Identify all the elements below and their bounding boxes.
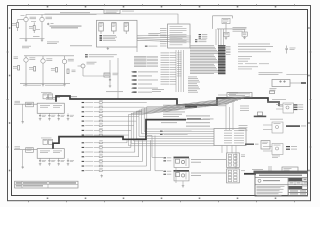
net tag left U10 (163, 171, 171, 172)
wire branch vertical (117, 58, 119, 99)
transistor Q3 (24, 58, 28, 62)
ground Q4 rail (42, 83, 45, 86)
comparator U8 box (272, 144, 283, 155)
interface box internal text (224, 130, 244, 143)
company name text (263, 180, 280, 181)
wires into U8 (263, 147, 272, 152)
wire bus -12V to U3 (137, 39, 191, 40)
label power note (148, 33, 160, 35)
transformer T2 box (37, 149, 64, 159)
net tag input row 1 (199, 34, 208, 35)
net tag row bat1 (85, 54, 117, 55)
notes list text block (238, 44, 273, 53)
label above U6 (272, 98, 286, 101)
transistor Q1 (24, 17, 28, 21)
power bus lower (53, 120, 186, 149)
approvals row 2 (288, 190, 307, 193)
caption text figure note B (47, 42, 59, 45)
label AC input 2 (15, 146, 21, 148)
wires into connector J1 (216, 29, 224, 45)
wire C12 up (244, 29, 246, 32)
wire Q3 up (25, 56, 27, 58)
wire to label box (218, 94, 227, 96)
capacitor C3 (109, 79, 111, 81)
caution label box (104, 10, 134, 14)
drawing number dark cell (288, 178, 302, 181)
title notes text (257, 186, 285, 196)
op-amp U10 box (174, 172, 189, 181)
net tag -12V row (100, 38, 116, 39)
signal text right of U10 row2 (191, 174, 201, 177)
wire regulator input (213, 15, 233, 17)
wire pair down (269, 166, 271, 172)
net row extra (161, 121, 177, 124)
capacitor C1 (47, 23, 49, 25)
fuse F2 (48, 94, 52, 99)
border zone tick marks top and bottom (29, 4, 295, 202)
net tag J1 header row 2 (195, 41, 206, 42)
wire VR3 output (125, 31, 127, 34)
wire Q6 down (64, 64, 66, 84)
regulator U5 (222, 18, 230, 23)
note text spare transistors (50, 26, 82, 29)
resistor R1 (17, 20, 19, 32)
notes table divider (15, 181, 78, 188)
wire VR1 output (100, 31, 102, 34)
title block right column divider (287, 185, 289, 196)
approvals row 3 (288, 193, 307, 196)
cells row mid text (290, 182, 308, 183)
transistor Q5 (224, 32, 229, 36)
notes table text (16, 182, 76, 186)
wire R1 to Q1 base (18, 19, 24, 21)
T2 internal text (40, 151, 62, 153)
resistor R4 (29, 67, 36, 72)
caption mid center (106, 90, 123, 93)
ground lower rows (100, 175, 103, 178)
zone numbers top and bottom (47, 6, 277, 199)
shield box U1 region (97, 20, 138, 47)
resistor R6 (67, 69, 76, 74)
wire Q6 up (64, 56, 66, 59)
wire Q4 down (42, 63, 44, 83)
wire above title block (252, 169, 263, 171)
ground below Q2 (41, 39, 44, 42)
label mid cluster (31, 21, 40, 30)
fuse F3 (43, 140, 47, 145)
label Q6 (68, 59, 74, 61)
transistor Q2 (40, 17, 44, 21)
label box power dist (227, 93, 252, 98)
title divider 1 (255, 177, 308, 179)
net tag row sheet ref (145, 46, 158, 47)
regulator VR1 (99, 23, 104, 31)
net tag +12V row (100, 37, 118, 38)
net tag left U9 (163, 157, 171, 158)
comparator U7 box (272, 122, 283, 133)
capacitor C12 (242, 32, 247, 36)
small box with bar (254, 112, 267, 117)
wire +5V rail mid (24, 55, 74, 57)
label GND net (33, 35, 40, 38)
label +5V rail (14, 57, 19, 60)
zone letters left and right (9, 27, 310, 171)
wire into U5 (232, 16, 234, 19)
label Q3 (29, 57, 35, 59)
wire Q4 up (42, 56, 44, 59)
wire from U3 top (212, 16, 214, 29)
U6 internal text (285, 103, 292, 106)
legend symbol row (238, 62, 269, 65)
inner border frame (12, 10, 308, 196)
text rows far left of U6 (240, 106, 249, 111)
U7 internal text (274, 122, 281, 125)
resistor R5 (51, 68, 58, 73)
label near C3 (113, 73, 119, 75)
wire Q7 to D1 (83, 75, 104, 77)
label Q7 (87, 62, 97, 65)
wire Q2 emitter (41, 22, 43, 39)
title divider 2 (255, 184, 308, 186)
wire AC input 1 (14, 103, 37, 105)
note text see sheet 2 (70, 44, 92, 47)
caption two lines right (259, 72, 283, 75)
ground shield box (107, 47, 110, 50)
wires interface box to relay K1 (222, 146, 236, 169)
approvals dark cell (288, 186, 302, 189)
net tag bar bus A (185, 106, 206, 108)
net tag +5V row (100, 35, 117, 36)
wire cap branch (109, 60, 111, 85)
ground AC input 2 (21, 166, 24, 169)
wire Q3 down (25, 62, 27, 83)
size cell (302, 178, 308, 181)
net tags U8 outputs (286, 146, 297, 150)
IC U4 internal pin text (170, 26, 187, 45)
wire U10 down (182, 181, 184, 185)
wire VR2 output (113, 31, 115, 34)
label right of K1 (241, 155, 245, 157)
wire ground rail mid (20, 82, 70, 84)
lower rows wire bends up (127, 140, 150, 171)
label U5 value (233, 27, 247, 31)
regulator VR2 (112, 23, 117, 31)
diode D1 box (104, 73, 110, 77)
IC U4 left pin labels (160, 28, 168, 46)
net tag input row 3 (199, 38, 208, 39)
ground Q5 (225, 37, 228, 40)
connector J1 pin rows with net tags (190, 45, 226, 74)
net tag left U10 row2 (163, 174, 171, 175)
wire shield box down (136, 47, 138, 52)
label near Q1 base (21, 14, 25, 17)
net tag snubber (301, 82, 306, 84)
wire feed U10 (155, 136, 163, 171)
label Q1 2N2222 (30, 17, 37, 19)
relay K1 contacts (228, 154, 237, 166)
label AC input 1 (15, 101, 21, 103)
IC U4 box (168, 24, 191, 48)
signal text right of U9 (191, 158, 226, 161)
caption mid-left (46, 97, 60, 99)
wires into U6 (267, 102, 283, 109)
line filter FL2 box (26, 148, 34, 153)
ground Q3 rail (25, 83, 28, 86)
notes table box (15, 181, 78, 188)
wire Q2 collector (41, 15, 43, 18)
wire emitter bus bottom (20, 38, 45, 40)
wire net VCC top-left (26, 14, 97, 16)
wire Q7 left (78, 65, 82, 67)
net tag J1 header row 1 (195, 39, 206, 40)
fuse F1 (43, 94, 47, 99)
transistor Q4 (41, 59, 45, 63)
U10 internals (176, 172, 187, 179)
T1 internal text (40, 105, 62, 107)
relay K2 contacts (228, 170, 237, 182)
ground U10 (182, 185, 185, 188)
op-amp U9 top bar (174, 157, 190, 159)
net tag bar bus B (187, 118, 214, 120)
legend row 2 (238, 66, 258, 69)
label R1 100K (12, 23, 16, 25)
label note under J1 (228, 92, 238, 95)
ground C3 (109, 85, 112, 88)
op-amp U9 box (174, 158, 189, 167)
U9 internals (176, 159, 187, 166)
text rows left of U7 (239, 125, 248, 131)
net name text mid (152, 89, 164, 92)
fuse F4 (48, 140, 52, 145)
resistor R3 (13, 66, 20, 71)
wire Q5 up (225, 29, 227, 32)
relay K1 box (227, 153, 240, 168)
wire AC neutral drop 2 (22, 150, 24, 166)
filter capacitors C8-C11 (39, 158, 74, 165)
cells row mid (288, 182, 308, 185)
signal text right of U10 (191, 172, 226, 175)
U8 internal text (274, 144, 281, 147)
wire U9 down (175, 168, 177, 184)
wire AC neutral drop (22, 104, 24, 120)
wires into U7 (263, 125, 272, 130)
transistor Q7 (81, 64, 85, 68)
wire bundle staircase into interface box (129, 96, 250, 146)
label text under rail (23, 84, 65, 87)
label R2 47K (29, 26, 33, 28)
label above U7 (270, 118, 283, 121)
wire output rail (217, 28, 246, 30)
ground AC input 1 (21, 121, 24, 124)
connector J1 right pin stubs (226, 47, 231, 55)
snubber box (272, 80, 290, 87)
ground C12 (243, 36, 246, 39)
outer border frame (8, 6, 311, 201)
wire drops to interface (226, 99, 233, 130)
label Q4 (46, 58, 52, 60)
title text row (259, 175, 302, 176)
wire AC input 2 (14, 149, 37, 151)
label C1 (51, 22, 54, 25)
label below U8 (272, 156, 280, 158)
signal name rows (186, 116, 210, 127)
wire U5 output (225, 24, 227, 29)
tag rows below (160, 131, 192, 135)
net tag input row 2 (199, 36, 208, 37)
driver Q8 box (261, 141, 270, 149)
vertical wires bus to J1 (176, 50, 184, 92)
caption text figure note A (22, 46, 31, 48)
signal text right of U9 row2 (191, 161, 201, 164)
net name rows mid right (163, 105, 185, 117)
revision strip dark band (254, 171, 309, 174)
label fuses F3 F4 (41, 137, 52, 140)
net label column rows (161, 53, 177, 85)
wire Q1 collector (25, 15, 27, 18)
wire bus AGND to U3 (137, 40, 191, 42)
pin text left of U6 (218, 104, 228, 107)
net label rows mid column (134, 56, 158, 67)
wire snubber out (290, 82, 301, 84)
net tag AGND row (100, 40, 117, 41)
title cell divider vertical (287, 178, 289, 185)
label right of K2 (241, 169, 245, 172)
wire Q7 down (82, 68, 84, 76)
net tags U6 outputs (294, 104, 304, 110)
filter capacitors C4-C7 (39, 113, 74, 120)
sense resistor rows R18-R24 (82, 140, 151, 171)
label fuses F1 F2 (41, 91, 52, 94)
bus net label (71, 95, 77, 98)
small parts rows right-mid (270, 88, 277, 93)
resistor R2 (33, 23, 35, 34)
wire caption lead (286, 74, 307, 76)
power bus thick upper (56, 96, 279, 106)
net tag bar U7 (286, 125, 306, 127)
company logo (258, 179, 261, 182)
line filter FL1 box (26, 102, 34, 107)
net tag row bat2 (85, 56, 114, 57)
label Q2 2N2222 (46, 17, 53, 19)
title block outer box (255, 173, 308, 196)
off-sheet connector tags (131, 71, 158, 93)
op-amp U10 top bar (174, 170, 190, 172)
comparator U6 box (283, 103, 294, 113)
net tag left U9 row2 (163, 160, 171, 161)
transistor Q6 (62, 59, 66, 63)
approvals cell 2 (302, 186, 308, 189)
ground Q6 rail (63, 83, 66, 86)
capacitor C14 (285, 46, 295, 54)
wire U4 top to net (45, 14, 179, 24)
wire Q1 emitter (25, 22, 27, 39)
wire bus +12V to U3 (137, 36, 191, 39)
component box above title (282, 167, 298, 172)
interface box (214, 129, 246, 146)
net tag bar left of U8 (245, 144, 259, 145)
connector J1 lower pin labels (188, 77, 200, 93)
power bus into title strip (244, 173, 256, 175)
transformer T1 box (37, 103, 64, 113)
sense resistor rows R10-R17 (82, 100, 147, 136)
connector J1 left pin numbers (177, 53, 182, 77)
wire bus +5V to U3 (137, 35, 191, 38)
notes rows 2 (238, 56, 252, 61)
relay K2 box (227, 169, 240, 183)
wire feed U9 (146, 136, 163, 158)
regulator VR3 (124, 23, 129, 31)
net label above VCC wire (60, 11, 90, 14)
border zone tick marks left and right (7, 52, 312, 147)
ground below Q1 (25, 39, 28, 42)
